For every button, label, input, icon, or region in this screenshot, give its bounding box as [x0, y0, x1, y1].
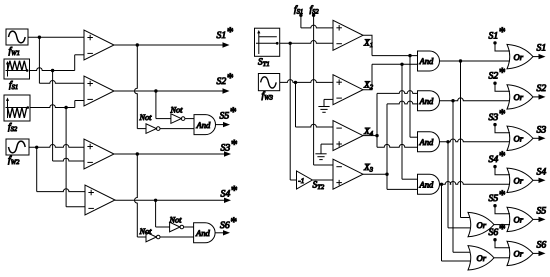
label Not N1: [139, 113, 153, 122]
svg-text:fS1: fS1: [9, 81, 18, 92]
label Or A: [477, 220, 487, 230]
comparator A3: [84, 139, 114, 169]
label S3: [537, 124, 547, 135]
svg-text:S3*: S3*: [221, 136, 238, 153]
wire ST1 output: [280, 40, 333, 43]
junction X1 out: [408, 54, 411, 57]
AND gate R1: [418, 51, 440, 71]
node fS2 input: [310, 5, 320, 17]
NOT gate N4: [170, 222, 184, 232]
label S3*: [221, 136, 238, 153]
label S6*: [220, 214, 237, 231]
OR gate O5: [507, 207, 533, 231]
node fS1 input: [294, 5, 333, 28]
wire fS1 output: [30, 55, 85, 71]
OR gate O6: [507, 241, 533, 265]
label X2: [363, 81, 374, 92]
label fS1: [9, 81, 18, 92]
AND gate R4: [418, 174, 440, 194]
wire S1 output: [533, 54, 546, 59]
junction fW3 node: [294, 81, 297, 84]
wire X2 output: [363, 64, 418, 89]
label S5: [537, 205, 547, 216]
label X3: [363, 163, 374, 174]
svg-text:S1*: S1*: [217, 24, 234, 41]
NOT gate N3: [146, 232, 160, 242]
wire X4 to AND R2: [377, 91, 418, 136]
label Or O5: [514, 215, 524, 225]
ground X4: [315, 154, 326, 160]
svg-text:ST2: ST2: [313, 181, 325, 192]
label Not N2: [170, 106, 184, 115]
wire S4 output: [533, 178, 546, 183]
AND gate L2: [194, 223, 216, 243]
wire A1 output S1*: [114, 42, 230, 47]
op-amp ST2 gain -1: [297, 171, 313, 189]
OR gate O3: [507, 126, 533, 150]
wire N3 to AND2: [160, 236, 194, 238]
label Or O1: [514, 52, 524, 62]
wire fW2 output: [29, 145, 84, 148]
svg-text:And: And: [419, 137, 435, 147]
node S2* input: [489, 64, 511, 91]
wire fW3 to comparator X4: [296, 82, 334, 127]
AND gate L1: [194, 115, 216, 135]
svg-text:S6*: S6*: [220, 214, 237, 231]
svg-text:Or: Or: [477, 220, 487, 230]
label And R4: [419, 180, 435, 190]
wire X3 output: [363, 173, 387, 175]
label fW3: [262, 91, 274, 102]
OR gate O4: [507, 168, 533, 192]
wire AND R3 to OR A: [448, 142, 470, 228]
wire AND R2 to OR B: [453, 101, 470, 253]
wire fS1 to comparator A3: [53, 71, 84, 162]
label -1: [298, 177, 304, 185]
svg-text:S6*: S6*: [489, 221, 506, 238]
svg-text:S5*: S5*: [489, 187, 506, 204]
svg-text:And: And: [419, 56, 435, 66]
source fS2: [4, 95, 30, 121]
NOT gate N2: [171, 114, 185, 124]
label X1: [363, 39, 373, 50]
wire S2 output: [533, 94, 546, 99]
svg-text:Or: Or: [514, 249, 524, 259]
AND gate R3: [418, 132, 440, 152]
junction AND R3 out: [446, 140, 449, 143]
wire X3 to AND R2: [387, 101, 418, 174]
junction AND R2 out: [451, 99, 454, 102]
label S2: [537, 83, 547, 94]
svg-text:-1: -1: [298, 177, 304, 185]
junction A1 out: [136, 43, 139, 46]
label fW1: [9, 47, 20, 58]
label S4*: [221, 182, 238, 199]
wire X1 to AND R3: [410, 56, 418, 138]
svg-text:S1: S1: [537, 43, 547, 54]
svg-text:X3: X3: [363, 163, 374, 174]
junction AND R1 out: [459, 59, 462, 62]
OR gate A: [468, 212, 494, 236]
label And L2: [195, 228, 211, 238]
comparator A4: [85, 185, 115, 215]
wire fW2 to comparator A4: [37, 147, 85, 191]
wire OR A to OR5: [494, 224, 510, 226]
svg-text:fW3: fW3: [262, 91, 274, 102]
label S6: [537, 239, 547, 250]
wire N1 to AND1: [160, 128, 194, 130]
node S5* input: [489, 187, 511, 214]
wire X1 output: [363, 35, 418, 55]
source ST1: [255, 28, 280, 56]
svg-text:ST1: ST1: [258, 58, 270, 69]
wire AND2 output S6*: [215, 230, 230, 235]
wire fW1 output: [28, 36, 84, 38]
svg-text:Or: Or: [514, 176, 524, 186]
wire ST2 to comparator X3: [312, 179, 333, 181]
label And L1: [196, 120, 212, 130]
wire AND R4 to OR4: [440, 182, 511, 185]
label S1: [537, 43, 547, 54]
junction A2 out: [154, 89, 157, 92]
label fW2: [8, 156, 20, 167]
comparator X2: [333, 75, 363, 105]
svg-text:fS2: fS2: [8, 123, 18, 134]
svg-text:S4*: S4*: [221, 182, 238, 199]
label fS2: [8, 123, 18, 134]
svg-text:S3*: S3*: [489, 106, 506, 123]
label Or B: [477, 253, 487, 263]
wire X4 to AND R3: [377, 136, 418, 148]
comparator A2: [84, 76, 114, 106]
wire S3 output: [533, 136, 546, 141]
comparator X3: [333, 159, 363, 189]
label Or O4: [514, 176, 524, 186]
wire A1 to NOT1: [135, 45, 147, 129]
label Or O3: [514, 134, 524, 144]
svg-text:S5: S5: [537, 205, 547, 216]
wire X4 output: [363, 135, 377, 137]
wire AND R3 to OR3: [440, 139, 511, 142]
label Or O6: [514, 249, 524, 259]
node S3* input: [489, 106, 511, 133]
source fW1: [6, 29, 28, 45]
svg-text:S4: S4: [537, 166, 547, 177]
wire A2 to NOT2: [156, 91, 171, 119]
svg-text:fW1: fW1: [9, 47, 20, 58]
svg-text:Or: Or: [514, 52, 524, 62]
junction X4 out: [375, 134, 378, 137]
wire A2 output S2*: [114, 88, 230, 93]
wire AND R4 to OR B: [442, 184, 471, 261]
wire fS2 to comparator X3: [314, 15, 333, 165]
AND gate R2: [418, 91, 440, 111]
junction X3 out: [385, 173, 388, 176]
wire AND R1 to OR A: [461, 61, 471, 218]
label ST1: [258, 58, 270, 69]
svg-text:S1*: S1*: [489, 24, 506, 41]
label S1*: [217, 24, 234, 41]
wire N2 to AND1: [185, 118, 194, 120]
OR gate O2: [507, 85, 533, 109]
label Or O2: [514, 92, 524, 102]
svg-text:And: And: [196, 120, 212, 130]
svg-text:S4*: S4*: [489, 148, 506, 165]
wire fW3 output: [280, 80, 333, 83]
node S1* input: [489, 24, 511, 51]
wire AND R2 to OR2: [440, 98, 511, 101]
wire S5 output: [533, 217, 546, 222]
wire N4 to AND2: [184, 226, 194, 228]
label Not N3: [139, 227, 153, 236]
source fW2: [6, 139, 29, 155]
wire fW1 to comparator A2: [39, 37, 84, 83]
svg-text:S2*: S2*: [217, 70, 234, 87]
svg-text:Not: Not: [139, 113, 153, 122]
label S2*: [217, 70, 234, 87]
svg-text:S6: S6: [537, 239, 547, 250]
wire fS2 output: [30, 101, 84, 108]
node S4* input: [489, 148, 511, 175]
label S4: [537, 166, 547, 177]
label Not N4: [169, 216, 183, 225]
junction AND R4 out: [440, 183, 443, 186]
junction fS1 node: [51, 69, 54, 72]
wire AND1 output S5*: [216, 122, 231, 127]
wire AND R1 to OR1: [440, 60, 511, 62]
NOT gate N1: [146, 124, 160, 134]
wire S6 output: [533, 251, 546, 256]
junction A3 out: [136, 152, 139, 155]
svg-text:Or: Or: [514, 92, 524, 102]
comparator X4: [333, 121, 363, 151]
junction fS2 node: [64, 106, 67, 109]
comparator A1: [84, 30, 114, 60]
source fS1: [4, 59, 30, 79]
junction X2 out: [400, 63, 403, 66]
junction ST1 node: [289, 42, 292, 45]
svg-text:S2*: S2*: [489, 64, 506, 81]
svg-text:And: And: [195, 228, 211, 238]
OR gate O1: [507, 44, 533, 68]
svg-text:S3: S3: [537, 124, 547, 135]
source fW3: [258, 74, 279, 91]
wire OR B to OR6: [494, 257, 510, 259]
wire A3 to NOT3: [135, 154, 147, 237]
wire X4 plus to ground: [321, 144, 333, 154]
label And R2: [419, 96, 435, 106]
svg-text:Or: Or: [514, 215, 524, 225]
label X4: [363, 127, 374, 138]
wire fS2 to comparator A4: [66, 108, 85, 207]
junction fW2 node: [35, 146, 38, 149]
svg-text:Not: Not: [139, 227, 153, 236]
label And R3: [419, 137, 435, 147]
label S5*: [220, 104, 237, 121]
node S6* input: [489, 221, 511, 248]
OR gate B: [468, 246, 494, 270]
wire ST1 to ST2: [290, 43, 296, 180]
wire X2 to AND R4: [402, 64, 418, 179]
svg-text:And: And: [419, 180, 435, 190]
svg-text:And: And: [419, 96, 435, 106]
svg-text:Or: Or: [477, 253, 487, 263]
svg-text:Not: Not: [170, 106, 184, 115]
label ST2: [313, 181, 325, 192]
ground X2: [318, 107, 329, 113]
label And R1: [419, 56, 435, 66]
wire A3 output S3*: [114, 151, 231, 156]
junction fW1 node: [38, 36, 41, 39]
svg-text:S2: S2: [537, 83, 547, 94]
wire X2 minus to ground: [324, 99, 333, 106]
wire A4 output S4*: [115, 198, 231, 203]
comparator X1: [333, 20, 363, 50]
junction A4 out: [154, 199, 157, 202]
svg-text:S5*: S5*: [220, 104, 237, 121]
svg-text:Not: Not: [169, 216, 183, 225]
wire X3 to AND R4: [387, 174, 418, 189]
svg-text:Or: Or: [514, 134, 524, 144]
wire A4 to NOT4: [156, 200, 170, 227]
svg-text:fW2: fW2: [8, 156, 20, 167]
